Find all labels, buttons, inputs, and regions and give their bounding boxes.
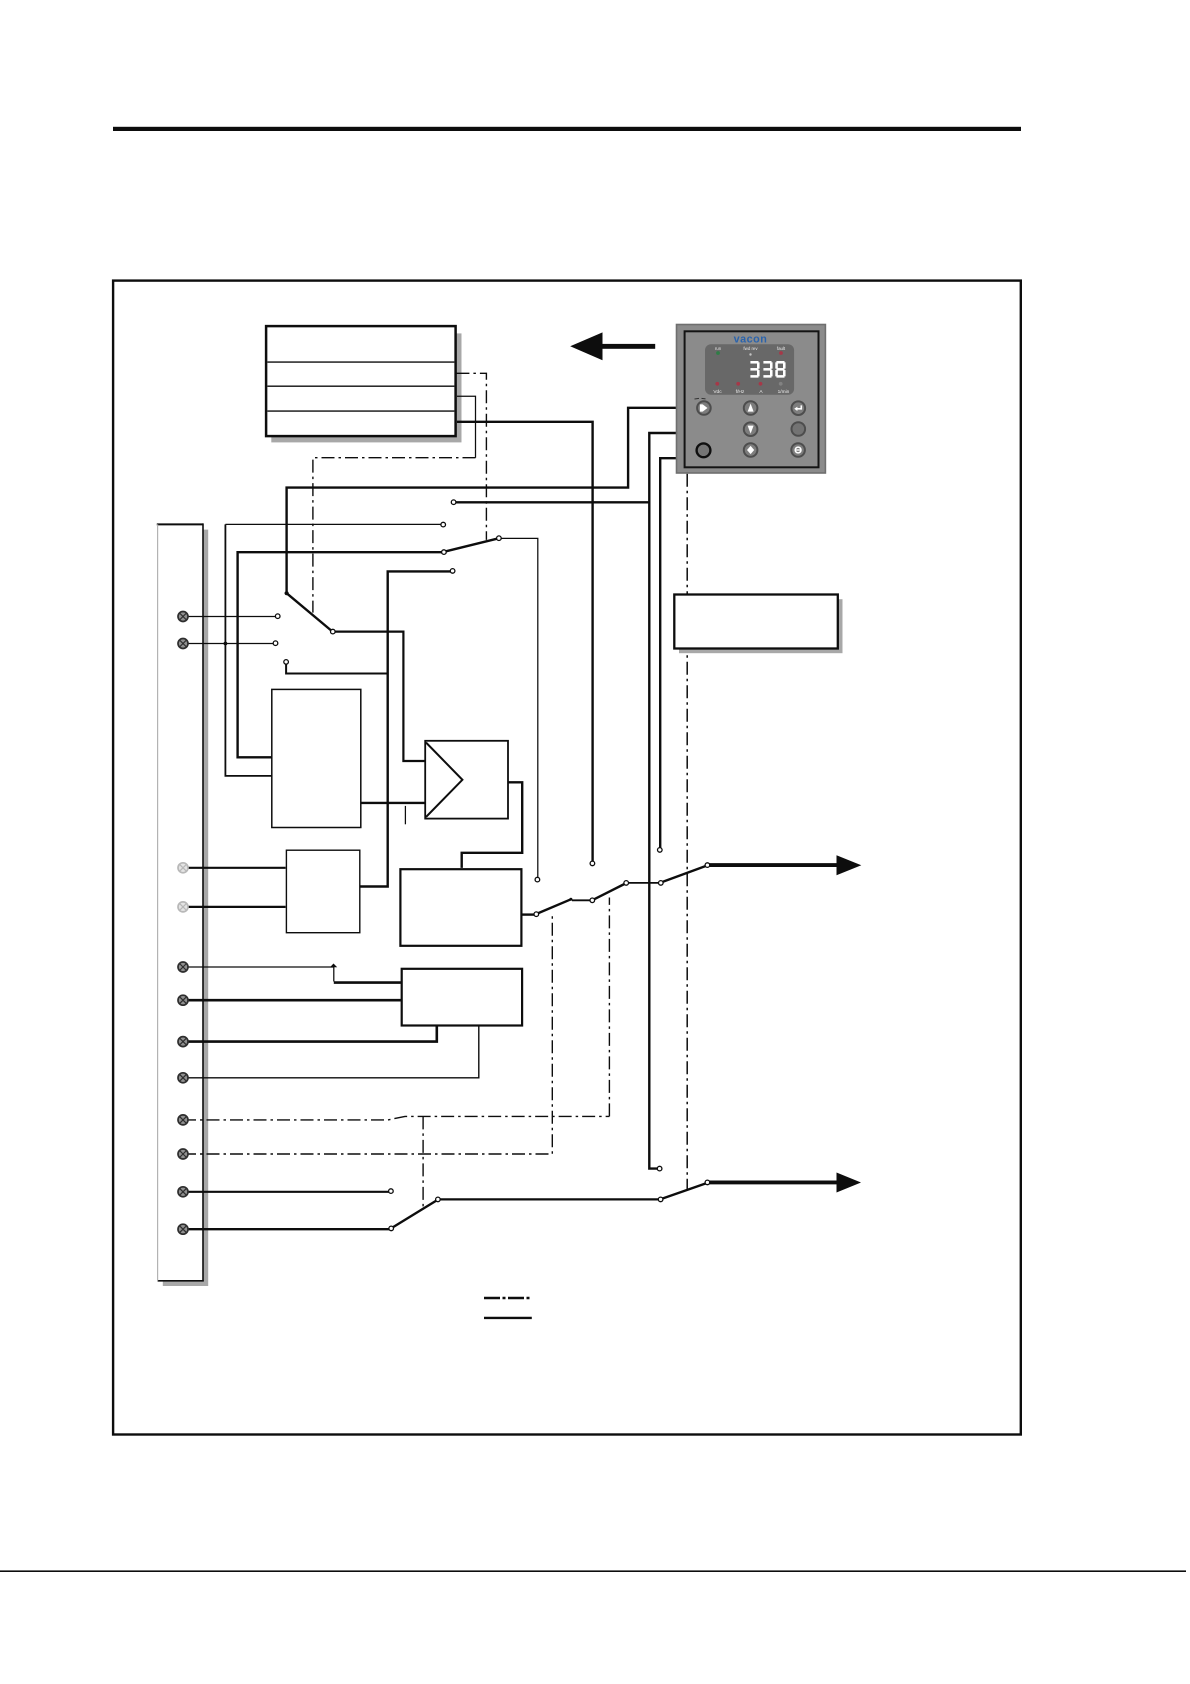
svg-text:fwd rev: fwd rev — [743, 346, 758, 351]
svg-text:1/min: 1/min — [778, 389, 790, 395]
svg-text:run: run — [715, 346, 722, 351]
svg-text:Vdc: Vdc — [713, 389, 722, 395]
svg-text:f/Hz: f/Hz — [736, 389, 745, 395]
svg-text:vacon: vacon — [734, 334, 768, 346]
svg-text:fault: fault — [777, 346, 786, 351]
